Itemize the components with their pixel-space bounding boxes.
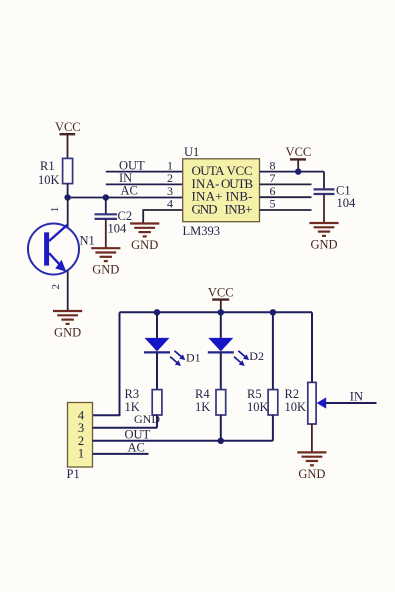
svg-text:OUT: OUT bbox=[125, 427, 151, 441]
node junction R1/transistor bbox=[64, 194, 70, 200]
svg-text:R4: R4 bbox=[195, 387, 210, 401]
wire C1 to ground bbox=[323, 194, 325, 223]
svg-text:1: 1 bbox=[78, 447, 84, 461]
wire transistor emitter to ground bbox=[67, 271, 69, 311]
svg-text:GND: GND bbox=[298, 467, 325, 481]
svg-text:GND: GND bbox=[92, 263, 119, 277]
node junction C2 bbox=[103, 194, 109, 200]
connector P1 bbox=[67, 403, 93, 481]
svg-text:IN: IN bbox=[350, 389, 363, 403]
wire U1 pin 4 stub bbox=[143, 210, 183, 224]
svg-text:GND: GND bbox=[134, 412, 160, 426]
wire U1 pin 7 bbox=[260, 183, 312, 185]
node junction pin8/VCC bbox=[295, 168, 301, 174]
svg-text:GND: GND bbox=[54, 326, 81, 340]
svg-text:INB+: INB+ bbox=[225, 201, 253, 216]
wire node to transistor collector bbox=[67, 198, 69, 229]
svg-text:104: 104 bbox=[108, 222, 128, 236]
resistor R5 bbox=[247, 387, 278, 415]
wire P1 pin 1 AC net line bbox=[93, 453, 149, 455]
svg-text:5: 5 bbox=[270, 197, 276, 211]
svg-text:10K: 10K bbox=[247, 400, 269, 414]
wire pin 8 corner down to C1 bbox=[323, 172, 325, 189]
svg-text:D2: D2 bbox=[249, 349, 264, 363]
node junction bus/R5 bbox=[270, 309, 276, 315]
wire bus to D1 anode bbox=[156, 312, 158, 338]
resistor R3 bbox=[125, 387, 162, 415]
svg-text:P1: P1 bbox=[67, 467, 80, 481]
svg-text:AC: AC bbox=[121, 184, 138, 198]
svg-text:GND: GND bbox=[192, 201, 218, 216]
svg-text:4: 4 bbox=[167, 197, 173, 211]
wire P1 pin 3 GND net line bbox=[93, 427, 158, 429]
svg-text:VCC: VCC bbox=[286, 145, 312, 159]
svg-text:10K: 10K bbox=[38, 173, 60, 187]
ground (below C1) bbox=[309, 223, 338, 251]
svg-text:GND: GND bbox=[310, 237, 337, 251]
wire R2 wiper to IN bbox=[326, 402, 377, 404]
wire R5 bottom corner to OUT net line bbox=[272, 415, 274, 441]
wire R4 bottom to OUT net line bbox=[220, 415, 222, 441]
svg-text:2: 2 bbox=[50, 284, 62, 290]
svg-text:AC: AC bbox=[128, 441, 145, 455]
potentiometer R2 bbox=[285, 382, 327, 424]
svg-text:R5: R5 bbox=[247, 387, 262, 401]
svg-text:1: 1 bbox=[49, 207, 61, 213]
wire U1 pin 8 to VCC and C1 bbox=[260, 171, 325, 173]
svg-text:R1: R1 bbox=[40, 159, 55, 173]
wire U1 pin 6 bbox=[260, 196, 312, 198]
ground (U1 pin 4) bbox=[130, 224, 159, 252]
wire VCC bus (bottom) bbox=[120, 311, 313, 313]
svg-text:LM393: LM393 bbox=[183, 224, 221, 238]
node junction bus/D1 bbox=[154, 309, 160, 315]
svg-text:R2: R2 bbox=[285, 387, 300, 401]
svg-text:N1: N1 bbox=[80, 234, 95, 248]
svg-text:D1: D1 bbox=[186, 350, 201, 364]
svg-text:1K: 1K bbox=[195, 400, 210, 414]
wire P1 pin 2 OUT net line bbox=[93, 440, 273, 442]
wire node to capacitor C2 bbox=[105, 198, 107, 215]
svg-text:VCC: VCC bbox=[208, 285, 234, 299]
capacitor C2 bbox=[95, 209, 133, 236]
node junction bus/VCC/D2 bbox=[218, 309, 224, 315]
wire bus to R5 bbox=[272, 312, 274, 389]
wire R3 bottom to GND net line bbox=[156, 415, 158, 428]
svg-text:R3: R3 bbox=[125, 387, 140, 401]
capacitor C1 bbox=[314, 184, 357, 211]
wire R1 bottom to node bbox=[67, 184, 69, 198]
wire bus to D2 anode bbox=[220, 312, 222, 338]
wire U1 pin 1 (OUT) bbox=[106, 171, 183, 173]
power symbol VCC (top right) bbox=[286, 145, 312, 172]
op-amp U1 LM393 body bbox=[183, 145, 260, 238]
node junction R4/OUT bbox=[218, 438, 224, 444]
wire D1 cathode to R3 bbox=[156, 351, 158, 389]
wire U1 pin 2 (IN) bbox=[106, 183, 183, 185]
svg-text:GND: GND bbox=[131, 238, 158, 252]
wire C2 to ground bbox=[105, 219, 107, 248]
svg-text:VCC: VCC bbox=[55, 120, 81, 134]
svg-text:10K: 10K bbox=[285, 400, 307, 414]
LED D1 bbox=[144, 338, 201, 366]
power symbol VCC (top left) bbox=[55, 120, 81, 134]
wire D2 cathode to R4 bbox=[220, 351, 222, 389]
svg-text:104: 104 bbox=[337, 196, 357, 210]
ground (below R2) bbox=[297, 452, 326, 480]
wire net AC horizontal to U1 pin 3 bbox=[68, 197, 183, 199]
wire R2 bottom to ground bbox=[311, 424, 313, 452]
wire bus right corner down to R2 bbox=[311, 312, 313, 382]
wire VCC to R1 bbox=[67, 134, 69, 159]
svg-text:IN: IN bbox=[119, 171, 132, 185]
ground (below C2) bbox=[91, 248, 120, 276]
svg-text:U1: U1 bbox=[184, 145, 199, 159]
resistor R4 bbox=[195, 387, 226, 415]
wire bus left leg down to P1 pin 4 bbox=[93, 312, 120, 415]
transistor N1 bbox=[28, 224, 95, 275]
wire U1 pin 5 bbox=[260, 209, 312, 211]
power symbol VCC (bottom) bbox=[208, 285, 234, 312]
LED D2 bbox=[208, 338, 264, 366]
ground (below transistor) bbox=[53, 311, 82, 340]
resistor R1 bbox=[38, 158, 73, 187]
